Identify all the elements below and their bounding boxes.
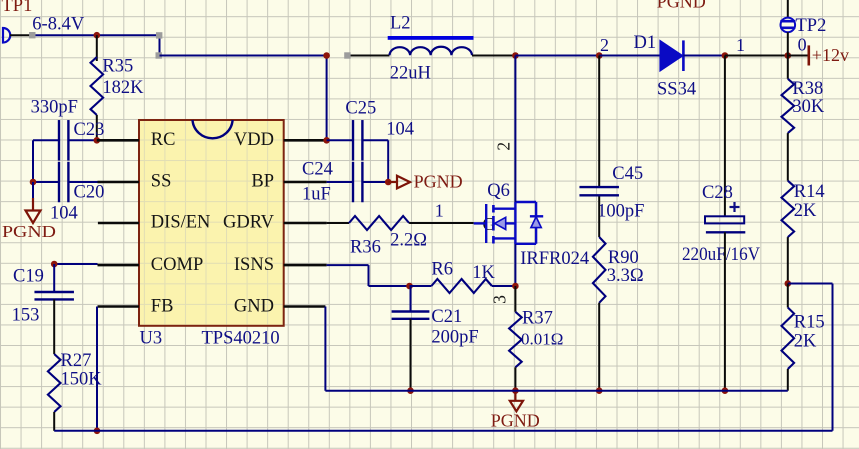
svg-text:PGND: PGND	[414, 172, 463, 192]
pin SS	[98, 181, 140, 184]
svg-text:R37: R37	[522, 309, 553, 329]
svg-text:PGND: PGND	[657, 0, 706, 12]
wire VDD riser	[326, 56, 328, 141]
wire C19 bottom	[53, 299, 55, 354]
svg-text:GND: GND	[234, 296, 274, 316]
wire C25 left lead	[327, 139, 353, 141]
svg-text:ISNS: ISNS	[234, 255, 274, 275]
wire COMP lead	[54, 263, 97, 265]
wire C25 down	[387, 140, 389, 182]
svg-text:2K: 2K	[794, 201, 817, 221]
junction C21 bottom	[407, 387, 414, 394]
svg-text:D1: D1	[634, 33, 657, 53]
capacitor C25	[352, 120, 354, 161]
wire R90 bottom	[598, 303, 600, 391]
wire ground rail	[325, 390, 787, 392]
wire GDRV to R36	[327, 222, 349, 224]
junction PGND left	[30, 179, 37, 186]
svg-text:+12v: +12v	[812, 45, 849, 65]
body diode Q6	[515, 201, 536, 203]
wire C21 bottom	[410, 319, 412, 391]
svg-text:0: 0	[798, 35, 807, 55]
wire R38-R14	[787, 133, 789, 181]
wire post-L2	[472, 55, 515, 57]
wire D1 cathode	[683, 55, 725, 57]
wire to VDD node	[160, 55, 327, 57]
svg-text:R35: R35	[102, 57, 133, 77]
label plus	[730, 206, 740, 208]
svg-text:104: 104	[386, 120, 414, 140]
wire R15 bottom stub	[787, 369, 789, 391]
capacitor C45	[579, 186, 619, 188]
svg-text:C19: C19	[13, 267, 44, 287]
power port +12v	[807, 45, 810, 65]
junction FB tap	[785, 280, 792, 287]
svg-text:R14: R14	[794, 182, 825, 202]
svg-text:1uF: 1uF	[302, 185, 331, 205]
junction C45 top	[596, 52, 603, 59]
transistor Q6	[474, 222, 487, 224]
wire to TP2 node	[725, 55, 788, 57]
svg-text:IRFR024: IRFR024	[520, 249, 589, 269]
wire PGND stem	[32, 182, 34, 198]
wire R6 left stub	[410, 285, 432, 287]
wire 6-8.4V net	[33, 34, 160, 36]
svg-text:R15: R15	[794, 313, 825, 333]
junction RC node	[94, 137, 101, 144]
wire drain	[514, 56, 516, 203]
svg-text:C23: C23	[74, 120, 105, 140]
svg-text:R90: R90	[608, 248, 639, 268]
wire R38 top stub	[787, 56, 789, 79]
junction COMP node	[51, 261, 58, 268]
svg-text:SS: SS	[151, 172, 172, 192]
svg-text:TP1: TP1	[2, 0, 33, 16]
wire BP lead	[327, 181, 353, 183]
node vertex handle 4	[344, 52, 350, 58]
resistor R27	[48, 354, 61, 412]
wire FB tap to right	[788, 283, 833, 285]
svg-text:R27: R27	[61, 351, 92, 371]
wire to C45 node	[515, 55, 599, 57]
junction output node	[785, 52, 792, 59]
wire R15 top stub	[787, 284, 789, 308]
node vertex handle 2	[156, 32, 162, 38]
pin BP	[284, 181, 327, 184]
svg-text:U3: U3	[140, 329, 163, 349]
svg-text:150K: 150K	[61, 370, 103, 390]
wire C23 right lead	[68, 139, 96, 141]
svg-text:3.3Ω: 3.3Ω	[607, 266, 644, 286]
label pin2 Q6	[494, 142, 514, 151]
svg-text:0.01Ω: 0.01Ω	[521, 330, 563, 349]
resistor R35	[91, 57, 104, 115]
junction R6 left	[406, 283, 413, 290]
node vertex handle 1	[29, 32, 35, 38]
svg-text:2: 2	[494, 142, 514, 151]
wire C20 right lead	[68, 181, 98, 183]
resistor R15	[782, 308, 795, 370]
node vertex handle 3	[156, 52, 162, 58]
svg-text:1: 1	[435, 201, 444, 221]
wire to power port	[788, 55, 808, 57]
svg-text:104: 104	[50, 204, 78, 224]
svg-text:TPS40210: TPS40210	[202, 329, 280, 349]
svg-text:C21: C21	[431, 307, 462, 327]
ground PGND bottom	[514, 391, 516, 401]
junction R35 top	[94, 32, 101, 39]
svg-text:153: 153	[12, 306, 40, 326]
wire R37 top stub	[514, 286, 516, 312]
wire right edge vertical	[832, 284, 834, 431]
svg-text:2.2Ω: 2.2Ω	[390, 231, 427, 251]
svg-text:200pF: 200pF	[431, 328, 478, 348]
inductor L2 bar	[388, 36, 474, 40]
pin RC	[97, 139, 139, 142]
svg-text:182K: 182K	[102, 78, 144, 98]
wire pre-L2	[347, 55, 389, 57]
svg-text:3: 3	[490, 295, 510, 304]
svg-text:330pF: 330pF	[31, 98, 78, 118]
wire C23 left lead	[33, 139, 59, 141]
svg-text:VDD: VDD	[234, 130, 274, 150]
wire C28 bottom	[724, 232, 726, 390]
junction R37 bottom	[512, 387, 519, 394]
svg-text:SS34: SS34	[657, 80, 696, 100]
capacitor C28 electrolytic	[705, 216, 744, 223]
junction top VDD	[323, 52, 330, 59]
svg-text:R38: R38	[792, 79, 823, 99]
svg-text:PGND: PGND	[2, 222, 56, 241]
ground PGND arrow right	[388, 181, 397, 183]
wire C28 top	[724, 56, 726, 217]
svg-text:2K: 2K	[794, 332, 817, 352]
wire jog down	[159, 35, 161, 55]
junction drain top	[512, 52, 519, 59]
svg-text:C45: C45	[612, 164, 643, 184]
svg-text:C25: C25	[345, 99, 376, 119]
inductor L2 coil	[390, 47, 473, 55]
wire FB down	[96, 307, 98, 431]
junction C24/C25 PGND	[385, 179, 392, 186]
resistor R14	[782, 181, 795, 237]
wire C20 left lead	[33, 181, 59, 183]
junction FB bottom	[94, 428, 101, 435]
svg-text:BP: BP	[251, 172, 274, 192]
pin ISNS	[284, 264, 327, 267]
resistor R36	[349, 216, 409, 230]
svg-text:GDRV: GDRV	[223, 213, 275, 233]
pin VDD	[284, 139, 327, 142]
pin FB	[98, 305, 140, 308]
wire R36 to gate	[409, 222, 474, 224]
wire TP2 bottom	[787, 32, 789, 55]
svg-text:DIS/EN: DIS/EN	[151, 213, 211, 233]
svg-text:COMP: COMP	[151, 255, 203, 275]
resistor R6	[431, 279, 492, 293]
wire C45-R90	[598, 197, 600, 238]
svg-text:R6: R6	[431, 260, 453, 280]
wire ISNS run	[327, 264, 369, 266]
wire R6 right stub	[492, 285, 516, 287]
wire C25 right lead	[362, 139, 388, 141]
capacitor C23	[58, 120, 60, 161]
label pin3 Q6	[490, 295, 510, 304]
svg-text:1K: 1K	[472, 263, 495, 283]
pin DIS/EN	[98, 222, 139, 225]
svg-text:220uF/16V: 220uF/16V	[682, 244, 760, 265]
junction C28 top	[722, 52, 729, 59]
wire bottom rail	[54, 430, 832, 432]
svg-text:L2: L2	[390, 14, 411, 34]
wire to D1 anode	[599, 55, 660, 57]
resistor R90	[593, 237, 606, 303]
wire R35 top stub	[96, 35, 98, 61]
wire R37 bottom stub	[514, 367, 516, 390]
svg-text:30K: 30K	[792, 97, 825, 117]
wire R35 bottom stub	[96, 115, 98, 140]
svg-text:6-8.4V: 6-8.4V	[32, 15, 85, 35]
resistor R38	[782, 79, 795, 133]
svg-text:R36: R36	[350, 237, 381, 257]
svg-text:TP2: TP2	[796, 16, 827, 36]
svg-text:2: 2	[600, 35, 609, 55]
grid over IC body	[140, 121, 283, 325]
svg-text:C28: C28	[702, 183, 733, 203]
svg-text:22uH: 22uH	[390, 64, 431, 84]
svg-text:PGND: PGND	[491, 410, 540, 430]
svg-text:RC: RC	[151, 130, 176, 150]
wire C45 top	[598, 56, 600, 189]
resistor R37	[509, 312, 522, 368]
wire GND down	[324, 307, 326, 391]
junction R90 bottom	[596, 387, 603, 394]
capacitor C19	[53, 264, 55, 292]
pin GND	[284, 305, 326, 308]
port TP1	[3, 28, 10, 43]
wire TP2 top	[787, 0, 789, 18]
svg-text:C24: C24	[302, 160, 333, 180]
junction C28 bottom	[722, 387, 729, 394]
testpoint TP2	[781, 18, 796, 33]
pin GDRV	[284, 222, 327, 225]
wire R27 bottom	[53, 412, 55, 431]
svg-text:FB: FB	[151, 296, 174, 316]
ground PGND left	[32, 198, 34, 211]
wire R14 bottom stub	[787, 237, 789, 283]
svg-text:1: 1	[736, 35, 745, 55]
svg-text:C20: C20	[74, 183, 105, 203]
capacitor C20	[58, 162, 60, 203]
wire left vertical	[32, 140, 34, 182]
capacitor C24	[352, 162, 354, 203]
wire C24 right lead	[362, 181, 388, 183]
pin COMP	[98, 264, 140, 267]
wire port lead	[10, 34, 32, 36]
wire source	[514, 244, 516, 286]
diode D1	[660, 40, 683, 71]
op-amp U3 TPS40210 body	[139, 120, 284, 326]
svg-text:100pF: 100pF	[597, 202, 644, 222]
junction source node	[512, 283, 519, 290]
capacitor C21	[410, 286, 412, 311]
notch arc	[193, 120, 233, 138]
junction VDD node	[323, 137, 330, 144]
svg-text:Q6: Q6	[487, 181, 510, 201]
